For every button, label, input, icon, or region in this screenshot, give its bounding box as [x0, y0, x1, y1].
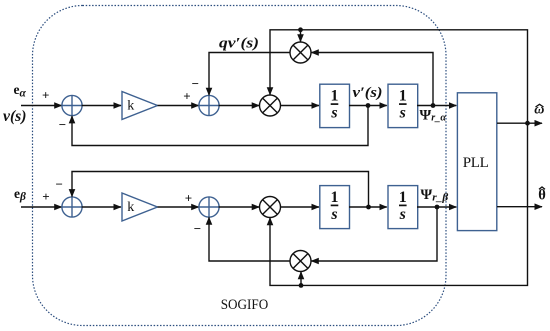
svg-text:v′(s): v′(s) — [353, 85, 383, 101]
wire branch into bottom M2 — [300, 272, 302, 286]
svg-text:k: k — [127, 98, 134, 113]
svg-text:s: s — [399, 206, 406, 223]
wire Psi_r_beta feedback to bottom multiplier — [311, 207, 437, 261]
svg-text:−: − — [194, 221, 201, 236]
wire v' negative feedback to S1 alpha — [72, 106, 368, 146]
svg-text:s: s — [399, 105, 406, 122]
wire e_alpha input — [21, 105, 62, 107]
wire I1 to I2 beta — [349, 206, 387, 208]
node junction dot above M2 — [298, 27, 303, 32]
gain k alpha — [122, 92, 158, 120]
svg-text:s: s — [330, 105, 337, 122]
svg-text:PLL: PLL — [463, 155, 489, 171]
wire theta-hat output — [497, 206, 542, 208]
svg-text:SOGIFO: SOGIFO — [221, 297, 269, 313]
wire S1 to gain k beta — [82, 206, 121, 208]
node junction dot below bottom M2 — [299, 283, 304, 288]
wire I1 to I2 alpha — [349, 105, 387, 107]
wire e_beta input — [21, 206, 62, 208]
summing junction S1 alpha — [62, 95, 82, 115]
node v'(s) junction dot — [366, 103, 371, 108]
wire omega feedback bottom run — [270, 123, 528, 285]
wire S1 to gain k alpha — [82, 105, 121, 107]
wire qv'(s) feedback into S2 alpha — [209, 53, 290, 96]
node v' beta junction dot — [366, 205, 371, 210]
node omega junction dot — [525, 121, 530, 126]
gain k beta — [122, 193, 158, 221]
wire I2 to PLL alpha — [417, 105, 456, 107]
multiplier M2 top (omega x Psi) — [290, 42, 311, 63]
wire Psi_r_alpha feedback to top multiplier — [311, 53, 433, 106]
summing junction S2 alpha — [199, 95, 219, 115]
summing junction S2 beta — [199, 197, 219, 217]
svg-text:+: + — [42, 189, 49, 204]
svg-text:1: 1 — [399, 189, 407, 206]
wire k to S2 alpha — [158, 105, 199, 107]
wire M1 to integrator I1 beta — [280, 206, 319, 208]
node Psi_r_alpha junction dot — [431, 103, 436, 108]
wire branch into M2 top — [300, 30, 302, 42]
integrator block I2 alpha 1/s — [388, 84, 418, 127]
svg-text:s: s — [330, 206, 337, 223]
svg-text:−: − — [192, 76, 199, 91]
svg-text:+: + — [183, 89, 190, 104]
multiplier M1 beta — [260, 197, 281, 218]
integrator block I2 beta 1/s — [388, 186, 418, 229]
wire S2 to multiplier M1 alpha — [219, 105, 260, 107]
svg-text:−: − — [59, 117, 66, 132]
PLL block — [457, 93, 496, 231]
svg-text:1: 1 — [331, 88, 339, 105]
svg-text:qv′(s): qv′(s) — [219, 36, 259, 52]
integrator block I1 alpha 1/s — [320, 84, 350, 127]
wire I2 to PLL beta — [417, 206, 456, 208]
wire omega-hat output — [497, 122, 542, 124]
svg-text:1: 1 — [331, 189, 339, 206]
wire M1 to integrator I1 alpha — [280, 105, 319, 107]
svg-text:1: 1 — [399, 88, 407, 105]
svg-text:+: + — [42, 88, 49, 103]
svg-text:−: − — [55, 177, 62, 192]
wire v' negative feedback to S1 beta — [72, 172, 369, 208]
svg-text:+: + — [185, 191, 192, 206]
wire qv' feedback into S2 beta — [209, 217, 290, 261]
wire omega feedback top run — [270, 30, 528, 123]
multiplier M2 bottom (omega x Psi) — [290, 251, 311, 272]
wire S2 to multiplier M1 beta — [219, 206, 260, 208]
summing junction S1 beta — [62, 197, 82, 217]
multiplier M1 alpha — [260, 95, 281, 116]
svg-text:k: k — [127, 200, 134, 215]
svg-text:v(s): v(s) — [3, 108, 27, 125]
node Psi_r_beta junction dot — [435, 205, 440, 210]
SOGIFO dashed boundary — [33, 6, 447, 326]
wire k to S2 beta — [158, 206, 199, 208]
integrator block I1 beta 1/s — [320, 186, 350, 229]
